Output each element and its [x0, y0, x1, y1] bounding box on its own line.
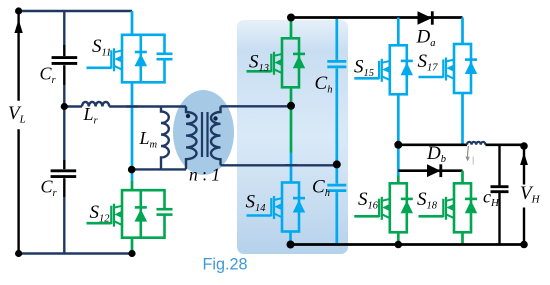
transformer core [202, 112, 208, 157]
wire: S17 drain [461, 18, 464, 45]
svg-text:S11: S11 [92, 36, 111, 58]
svg-text:Cr: Cr [41, 177, 58, 199]
primary polarity dot [186, 114, 190, 118]
wire: Ch leg [335, 18, 338, 246]
switch S16 [354, 183, 413, 232]
wire: S12 source [131, 238, 134, 254]
wire: S15-S16 link [397, 94, 400, 175]
node: output minus [520, 241, 528, 249]
wire: S13 drain [290, 18, 293, 39]
svg-text:S17: S17 [418, 51, 439, 73]
wire: crossing overlay right [285, 164, 297, 166]
wire: S13-S14 link [290, 87, 293, 152]
svg-text:VH: VH [520, 183, 541, 206]
capacitor Cr bottom [51, 171, 77, 177]
node: S13-S14 midpoint [287, 102, 295, 110]
wire: top-left rail [19, 10, 132, 12]
wire: link to transformer [109, 105, 186, 107]
node: Ch midpoint [333, 160, 341, 168]
wire: secondary bottom [221, 164, 337, 166]
wire: Db link [398, 169, 462, 172]
capacitor Cr top [52, 58, 78, 64]
node: S13 drain rail [287, 14, 295, 22]
wire: resonant link [64, 105, 82, 107]
svg-text:VL: VL [8, 103, 26, 126]
node: switch node to primary [128, 166, 136, 174]
diode Db [427, 164, 441, 177]
wire: output port [523, 146, 525, 245]
svg-text:S15: S15 [354, 57, 374, 79]
secondary polarity dot [213, 116, 217, 120]
wire: switch-node vertical [131, 82, 134, 181]
voltage source V_L arrow line [17, 11, 19, 254]
wire: bottom-left rail [19, 252, 132, 254]
inductor Lm [161, 107, 169, 170]
wire: top rail [291, 16, 463, 19]
node: S16 source rail [395, 241, 403, 249]
wire: output link right [485, 144, 524, 147]
svg-text:Lr: Lr [83, 104, 99, 126]
V_L arrowhead [14, 20, 22, 34]
switch S18 [419, 183, 478, 232]
inductor Lr [82, 102, 109, 107]
wire: primary bottom return [132, 168, 186, 170]
diode Da [418, 11, 433, 24]
transformer primary winding [186, 107, 197, 170]
switch S15 [354, 45, 413, 94]
svg-text:n : 1: n : 1 [189, 165, 220, 185]
current probe marker [466, 146, 469, 160]
switch S13 [247, 38, 306, 87]
transformer highlight ellipse [173, 90, 234, 175]
wire: bottom rail [291, 243, 525, 246]
svg-text:S16: S16 [358, 189, 379, 211]
svg-text:Lm: Lm [139, 128, 158, 150]
node: S12 source rail [128, 250, 135, 257]
svg-text:S12: S12 [90, 202, 111, 224]
wire: S18 source [461, 232, 464, 244]
svg-text:S18: S18 [417, 189, 438, 211]
wire: S14 source [289, 232, 292, 245]
svg-text:Cr: Cr [40, 64, 57, 86]
switch S14 [247, 183, 306, 232]
switch S17 [419, 44, 478, 93]
switch S11 [87, 35, 173, 83]
svg-text:Da: Da [416, 27, 436, 49]
wire: crossing overlay left [126, 105, 138, 107]
wire: output link left [398, 144, 467, 147]
V_H arrowhead [520, 153, 528, 166]
wire: S16 source [397, 232, 400, 244]
capacitor c_H [491, 187, 509, 192]
capacitor Ch bottom [327, 185, 346, 191]
svg-text:Fig.28: Fig.28 [203, 256, 248, 274]
wire: left capacitor leg [63, 11, 65, 254]
switch S12 [87, 190, 173, 238]
wire: S18 drain [461, 171, 464, 184]
node: output plus [520, 142, 528, 150]
node: output tap [394, 141, 402, 149]
node: Cr midpoint [61, 103, 68, 110]
wire: output capacitor leg [498, 145, 500, 245]
capacitor Ch top [327, 61, 346, 67]
node: S14 source rail [287, 241, 295, 249]
node: top-left [15, 7, 22, 14]
shaded background band [237, 20, 348, 254]
svg-text:Db: Db [426, 143, 446, 165]
svg-text:cH: cH [483, 186, 500, 209]
node: bottom-left [15, 250, 22, 257]
wire: S17 source [461, 93, 464, 145]
wire: S15 drain [397, 18, 400, 46]
output filter inductor [467, 142, 485, 145]
wire: secondary top [221, 105, 292, 107]
transformer secondary winding [211, 107, 221, 166]
wire: S11 drain [131, 11, 134, 35]
